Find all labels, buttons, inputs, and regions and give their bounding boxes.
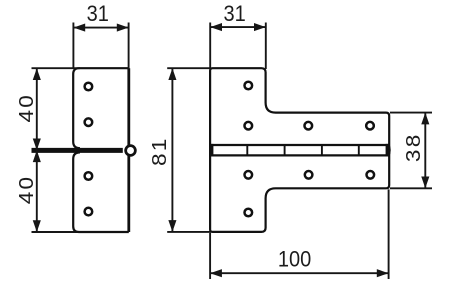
dimension 100 right arrowhead — [377, 269, 389, 277]
screw hole upper row middle (right view) — [305, 122, 313, 130]
dimension 31 (left view) extension lines — [72, 23, 74, 70]
hinge joint thick line with left extension (left view) — [32, 148, 123, 153]
knuckle tick 2 — [284, 145, 286, 155]
dimension 31 (right view) dimension line — [210, 26, 266, 28]
dimension 40 top arrowhead — [33, 68, 41, 80]
svg-text:40: 40 — [15, 175, 38, 205]
screw hole lower row middle (right view) — [305, 171, 313, 179]
svg-text:100: 100 — [278, 246, 312, 271]
hinge joint knuckle band top line (right view) — [210, 144, 389, 146]
knuckle tick 3 — [321, 145, 323, 155]
pin end cap right with bulge (right view) — [386, 144, 391, 157]
hinge joint knuckle band bottom line (right view) — [210, 154, 389, 156]
svg-text:31: 31 — [87, 1, 109, 26]
dimension 81 top arrowhead — [168, 68, 176, 80]
dimension 100 dimension line — [210, 272, 389, 274]
lower leaf outline (left view) — [73, 152, 129, 232]
dimension 31 (right view) right arrowhead — [254, 23, 266, 31]
dimension 40 middle upper arrowhead — [33, 139, 41, 151]
svg-text:40: 40 — [15, 93, 38, 123]
extension line bottom edge to 81 dim (right view) — [167, 231, 211, 233]
dimension 40 bottom arrowhead — [33, 220, 41, 232]
extension line bottom edge (left view) — [32, 231, 81, 233]
dimension 100 left arrowhead — [210, 269, 222, 277]
dimension 40/40 (left view) dimension line — [36, 68, 38, 232]
svg-text:81: 81 — [148, 136, 171, 166]
knuckle pin circle (left view) — [126, 146, 136, 156]
knuckle tick 4 — [358, 145, 360, 155]
screw hole 1 (left view) — [85, 83, 93, 91]
pin end cap left (right view) — [209, 144, 213, 157]
dimension 81 (right view) dimension line — [171, 68, 173, 232]
screw hole top bar (right view) — [245, 82, 253, 90]
dimension 38 dimension line — [424, 113, 426, 189]
T-hinge plate outline (right view) — [210, 68, 389, 232]
dimension 31 (left view) right arrowhead — [117, 24, 129, 32]
screw hole bottom bar (right view) — [245, 209, 253, 217]
dimension 40 middle lower arrowhead — [33, 150, 41, 162]
screw hole upper row left (right view) — [245, 122, 253, 130]
dimension 38 (right view) extension lines — [390, 112, 432, 114]
screw hole 3 (left view) — [85, 172, 93, 180]
screw hole 2 (left view) — [85, 118, 93, 126]
screw hole lower row left (right view) — [245, 171, 253, 179]
extension line top edge (left view) — [32, 67, 81, 69]
knuckle tick 1 — [246, 145, 248, 155]
dimension 38 top arrowhead — [421, 113, 429, 125]
svg-text:38: 38 — [402, 133, 425, 163]
dimension 31 (right view) left arrowhead — [210, 23, 222, 31]
dimension 100 (right view) extension lines — [209, 233, 211, 279]
dimension 31 (left view) dimension line — [73, 27, 128, 29]
screw hole lower row right (right view) — [367, 171, 375, 179]
folded edge right thick line (left view) — [127, 68, 130, 232]
extension line top edge to 81 dim (right view) — [167, 67, 211, 69]
svg-text:31: 31 — [223, 1, 245, 26]
dimension 31 (right view) extension lines — [209, 23, 211, 70]
dimension 38 bottom arrowhead — [421, 177, 429, 189]
dimension 81 bottom arrowhead — [168, 220, 176, 232]
screw hole upper row right (right view) — [366, 122, 374, 130]
dimension 31 (left view) left arrowhead — [73, 24, 85, 32]
upper leaf outline (left view) — [73, 68, 129, 148]
screw hole 4 (left view) — [85, 208, 93, 216]
